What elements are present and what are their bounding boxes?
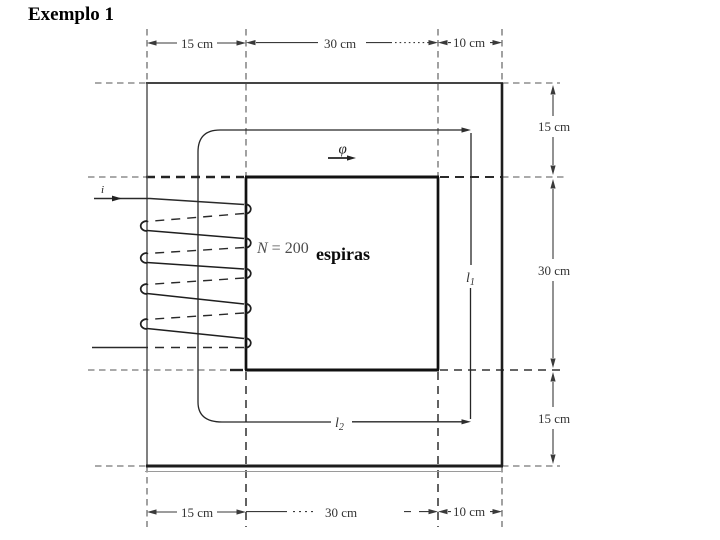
construction line vertical x=438 bottom [437,372,439,527]
svg-text:15 cm: 15 cm [538,119,570,134]
current lead top [94,199,244,205]
construction line horizontal y=177 far-right [502,176,564,178]
core outer edge left [146,83,148,466]
coil turn 2 left arc [141,253,147,263]
top dimension 15cm line [151,42,242,44]
construction line vertical x=147 top [146,29,148,83]
coil turn 1 left arc [141,221,147,231]
svg-text:i: i [101,184,104,196]
core outer edge right [501,83,504,466]
svg-text:espiras: espiras [316,244,370,264]
coil turn 2 back strand dashed [147,248,244,254]
right dimension 15cm lower [550,372,555,382]
svg-text:Exemplo 1: Exemplo 1 [28,4,114,25]
core outer edge top [146,82,503,84]
mean flux path bottom arrowhead [462,419,472,424]
svg-text:φ: φ [339,142,347,158]
bottom dimension 30cm line [246,511,287,513]
svg-text:30 cm: 30 cm [325,505,357,520]
coil turn 3 right arc [245,269,251,279]
construction line horizontal y=466 left [95,465,147,467]
core outer edge bottom [146,465,503,468]
core window edge right [437,177,440,370]
construction line horizontal y=466 right [502,465,560,467]
right dimension 15cm upper [550,85,555,95]
construction line vertical x=438 top [437,29,439,177]
construction line horizontal y=370 far-left [88,369,228,371]
coil turn 5 right arc [245,338,251,348]
coil turn 4 right arc [245,304,251,314]
construction line vertical x=246 top [245,29,247,177]
construction line horizontal y=83 right [502,82,560,84]
construction line horizontal y=370 left thick dash [230,369,243,371]
construction line horizontal y=370 right [440,369,564,371]
svg-text:N = 200: N = 200 [256,240,309,257]
svg-text:15 cm: 15 cm [181,505,213,520]
coil turn 1 back strand dashed [147,214,244,222]
top dimension 30cm line [256,42,318,44]
construction line vertical x=147 bottom [146,466,148,527]
coil turn 2 right arc [245,238,251,248]
construction line vertical x=502 top [501,29,503,83]
top dimension 10cm line [438,40,448,45]
bottom dimension 15cm line [151,511,242,513]
construction line horizontal y=177 left thick [146,176,244,178]
coil turn 3 left arc [141,284,147,294]
construction line vertical x=502 bottom [501,466,503,527]
svg-text:10 cm: 10 cm [453,35,485,50]
svg-text:10 cm: 10 cm [453,504,485,519]
construction line horizontal y=177 far-left [88,176,146,178]
coil lead bottom [92,347,147,349]
svg-text:30 cm: 30 cm [324,36,356,51]
coil turn 1 right arc [245,204,251,214]
coil turn 3 front strand [147,294,244,305]
mean flux path l1 vertical lower [470,288,472,419]
mean flux path bottom segment right [352,421,466,423]
construction line vertical x=246 bottom [245,372,247,527]
coil turn 4 front strand [147,329,244,339]
svg-text:15 cm: 15 cm [538,411,570,426]
coil turn 2 front strand [147,263,244,270]
coil turn 4 left arc [141,319,147,329]
right dimension 30cm [550,179,555,189]
core window edge left [245,177,248,370]
construction line horizontal y=177 right thick [440,176,502,178]
flux direction arrow [328,157,349,159]
coil turn 5 back strand dashed [147,347,244,349]
core window edge bottom [245,369,439,372]
svg-text:15 cm: 15 cm [181,36,213,51]
core window edge top [245,176,439,179]
mean flux path top arrowhead [462,127,472,132]
construction line horizontal y=83 left [95,82,147,84]
mean flux path l1 vertical upper [470,133,472,265]
mean flux path left leg with rounded corners [198,130,466,422]
coil turn 1 front strand [147,231,244,239]
scan shadow line below bottom edge [145,471,503,473]
bottom dimension 10cm line [438,509,448,514]
coil turn 4 back strand dashed [147,313,244,320]
svg-text:30 cm: 30 cm [538,263,570,278]
current arrowhead [112,196,122,202]
coil turn 3 back strand dashed [147,278,244,285]
